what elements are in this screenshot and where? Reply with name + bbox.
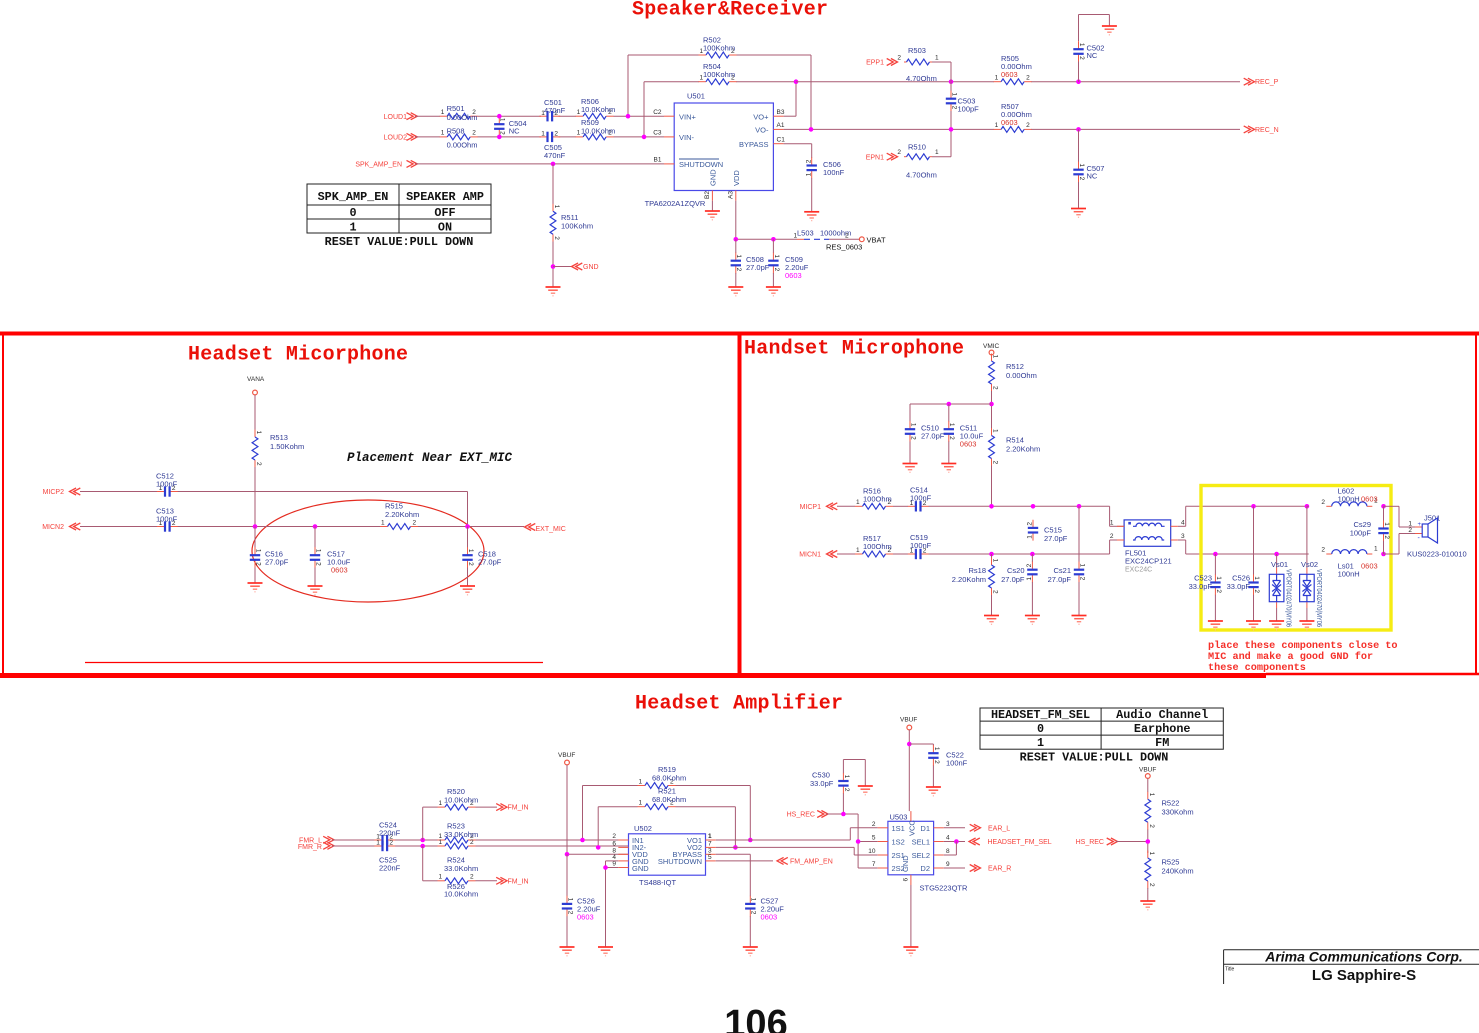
svg-text:Headset Amplifier: Headset Amplifier xyxy=(635,693,843,716)
svg-text:VBAT: VBAT xyxy=(867,235,886,244)
svg-text:0: 0 xyxy=(349,206,356,220)
wire net SPK_AMP_EN xyxy=(415,163,664,165)
ground C508 xyxy=(728,287,743,296)
svg-text:U501: U501 xyxy=(687,92,705,101)
node R502/VO- xyxy=(809,127,814,132)
capacitor C526b xyxy=(1227,506,1260,621)
svg-text:100pF: 100pF xyxy=(1350,529,1372,538)
wire HS_REC net xyxy=(826,814,878,868)
svg-text:1.50Kohm: 1.50Kohm xyxy=(270,442,304,451)
wire R504 feedback xyxy=(644,82,796,137)
svg-text:5: 5 xyxy=(708,854,712,861)
wire VMIC to R512 xyxy=(991,355,993,360)
node R502/VIN+ xyxy=(626,114,631,119)
svg-text:2: 2 xyxy=(845,233,849,240)
svg-text:FM: FM xyxy=(1155,736,1169,750)
capacitor C511 xyxy=(944,404,984,464)
port EAR_L xyxy=(944,824,1010,832)
inductor L503 xyxy=(794,229,863,252)
port FMR_R xyxy=(298,842,334,851)
wire BYPASS to C527 xyxy=(716,854,751,896)
port MICN1 xyxy=(799,551,837,559)
svg-text:RESET VALUE:PULL DOWN: RESET VALUE:PULL DOWN xyxy=(1020,751,1169,765)
resistor R520 xyxy=(438,787,479,810)
svg-text:100Ohm: 100Ohm xyxy=(863,542,892,551)
svg-text:3: 3 xyxy=(946,821,950,828)
svg-text:U502: U502 xyxy=(634,824,652,833)
node C518/MICN2 xyxy=(465,524,470,529)
svg-text:33.0pF: 33.0pF xyxy=(1227,582,1251,591)
svg-text:33.0Kohm: 33.0Kohm xyxy=(444,830,478,839)
svg-text:2: 2 xyxy=(612,833,616,840)
node R519 right xyxy=(748,838,753,843)
svg-text:VMIC: VMIC xyxy=(983,343,1000,350)
ground C523 xyxy=(1208,621,1223,630)
wire net MICP2 xyxy=(80,492,468,527)
resistor R503 xyxy=(897,46,939,83)
svg-text:68.0Kohm: 68.0Kohm xyxy=(652,795,686,804)
svg-text:RES_0603: RES_0603 xyxy=(826,243,862,252)
wire to GND port xyxy=(553,266,571,268)
svg-text:68.0Kohm: 68.0Kohm xyxy=(652,774,686,783)
svg-text:Cs20: Cs20 xyxy=(1007,566,1025,575)
svg-text:0603: 0603 xyxy=(960,440,977,449)
svg-text:0603: 0603 xyxy=(577,913,594,922)
svg-text:VCC: VCC xyxy=(908,820,917,836)
resistor R519 xyxy=(638,765,687,788)
svg-text:100Ohm: 100Ohm xyxy=(863,495,892,504)
svg-text:REC_N: REC_N xyxy=(1255,127,1279,134)
svg-text:33.0Kohm: 33.0Kohm xyxy=(444,864,478,873)
svg-text:100nF: 100nF xyxy=(946,759,968,768)
capacitor C521 xyxy=(1048,506,1086,615)
svg-text:1: 1 xyxy=(1110,520,1114,527)
filter FL501 xyxy=(1110,520,1185,574)
svg-text:Speaker&Receiver: Speaker&Receiver xyxy=(632,0,828,22)
svg-text:LOUD1: LOUD1 xyxy=(384,114,407,121)
ground V501 xyxy=(1269,621,1284,630)
svg-text:R514: R514 xyxy=(1006,436,1024,445)
node V501 xyxy=(1274,552,1279,557)
node C507 join xyxy=(1076,127,1081,132)
border right edge xyxy=(1475,334,1477,675)
svg-text:0603: 0603 xyxy=(761,913,778,922)
port FM_IN lower xyxy=(496,877,528,885)
svg-text:HS_REC: HS_REC xyxy=(787,812,815,819)
svg-text:EPN1: EPN1 xyxy=(866,154,884,161)
wire R502 feedback xyxy=(628,55,811,129)
svg-text:NC: NC xyxy=(509,127,520,136)
svg-text:R522: R522 xyxy=(1162,799,1180,808)
svg-text:3: 3 xyxy=(1181,533,1185,540)
node MICP1/C521 xyxy=(1077,504,1082,509)
port HEADSET_FM_SEL xyxy=(944,838,1052,855)
node MICP1/C515 xyxy=(1031,504,1036,509)
port FM_AMP_EN xyxy=(777,857,833,865)
resistor R501 xyxy=(440,104,478,122)
svg-text:SPK_AMP_EN: SPK_AMP_EN xyxy=(355,162,402,169)
resistor R508 xyxy=(440,127,478,150)
svg-text:FM_IN: FM_IN xyxy=(508,805,529,812)
svg-text:27.0pF: 27.0pF xyxy=(746,263,770,272)
capacitor C529 xyxy=(1350,506,1390,554)
power VBUF U503 xyxy=(900,717,917,730)
power VMIC xyxy=(983,343,1000,355)
svg-text:100nF: 100nF xyxy=(156,480,178,489)
wire net MICN2 xyxy=(80,526,524,528)
ground C520 xyxy=(1025,616,1040,625)
svg-text:2: 2 xyxy=(1408,527,1412,534)
node FM tap R xyxy=(420,844,425,849)
svg-text:R510: R510 xyxy=(908,143,926,152)
svg-text:D1: D1 xyxy=(920,824,930,833)
svg-text:EAR_L: EAR_L xyxy=(988,825,1010,832)
resistor R513 xyxy=(252,430,304,468)
resistor R510 xyxy=(897,143,939,180)
svg-text:4.70Ohm: 4.70Ohm xyxy=(906,171,937,180)
ground R518 xyxy=(984,616,999,625)
svg-text:HEADSET_FM_SEL: HEADSET_FM_SEL xyxy=(988,839,1052,846)
title block xyxy=(1224,949,1479,985)
wire net LOUD2 xyxy=(415,136,664,138)
svg-text:R513: R513 xyxy=(270,433,288,442)
port HS_REC left xyxy=(787,811,828,819)
border bottom of middle sections xyxy=(0,673,1266,678)
capacitor C516 xyxy=(250,527,289,584)
ground C510 xyxy=(903,464,918,473)
port GND xyxy=(572,263,599,271)
wire net FMR_R xyxy=(332,845,629,847)
svg-text:1: 1 xyxy=(708,833,712,840)
wire net REC_P xyxy=(796,81,1240,83)
ground C518 xyxy=(460,586,475,595)
svg-text:4: 4 xyxy=(1181,520,1185,527)
svg-text:LOUD2: LOUD2 xyxy=(384,135,407,142)
svg-text:0603: 0603 xyxy=(1001,70,1018,79)
node V502 xyxy=(1305,504,1310,509)
svg-text:SHUTDOWN: SHUTDOWN xyxy=(679,160,723,169)
capacitor C502 xyxy=(1073,15,1104,82)
node C509 xyxy=(771,237,776,242)
wire R511 top xyxy=(552,164,554,204)
node C511 top xyxy=(947,402,952,407)
svg-text:Cs21: Cs21 xyxy=(1053,566,1071,575)
inductor L602 xyxy=(1307,487,1378,507)
ground C506 xyxy=(804,212,819,221)
svg-text:VO+: VO+ xyxy=(753,113,769,122)
capacitor C518 xyxy=(462,527,501,587)
ground C509 xyxy=(766,287,781,296)
port EXT_MIC xyxy=(525,524,566,534)
svg-text:FM_IN: FM_IN xyxy=(508,878,529,885)
svg-text:0.00Ohm: 0.00Ohm xyxy=(447,113,478,122)
node C522 tap xyxy=(907,742,912,747)
capacitor C512 xyxy=(156,472,178,497)
svg-text:EXC24CP121: EXC24CP121 xyxy=(1125,557,1172,566)
svg-text:100nF: 100nF xyxy=(823,168,845,177)
wire net REC_N xyxy=(784,128,1240,130)
wire U502 gnd pins xyxy=(606,861,619,947)
resistor R525 xyxy=(1145,851,1194,889)
ground C517 xyxy=(308,586,323,595)
svg-text:2: 2 xyxy=(1321,499,1325,506)
wire FL501 out top xyxy=(1178,506,1309,526)
svg-text:VIN-: VIN- xyxy=(679,133,695,142)
ground C511 xyxy=(941,464,956,473)
svg-text:27.0pF: 27.0pF xyxy=(1044,534,1068,543)
capacitor C507 xyxy=(1073,129,1104,208)
svg-text:+: + xyxy=(1418,522,1422,528)
resistor R504 xyxy=(699,62,737,85)
resistor R509 xyxy=(576,118,616,140)
svg-text:9: 9 xyxy=(612,861,616,868)
svg-text:6: 6 xyxy=(903,878,910,882)
wire R510 to REC_N xyxy=(932,129,951,156)
svg-text:27.0pF: 27.0pF xyxy=(265,558,289,567)
svg-text:100Kohm: 100Kohm xyxy=(703,44,735,53)
svg-text:220nF: 220nF xyxy=(379,829,401,838)
capacitor C525 xyxy=(374,840,400,873)
svg-text:0603: 0603 xyxy=(1361,562,1378,571)
svg-text:MIC and make a good GND for: MIC and make a good GND for xyxy=(1208,651,1373,663)
ground U503 xyxy=(903,947,918,956)
svg-text:SPEAKER AMP: SPEAKER AMP xyxy=(406,190,484,204)
svg-text:Headset Micorphone: Headset Micorphone xyxy=(188,344,408,367)
node GND junction xyxy=(551,264,556,269)
ground C530 xyxy=(858,786,873,795)
resistor R512 xyxy=(989,354,1037,392)
node U502 gnd xyxy=(603,865,608,870)
svg-text:Arima Communications Corp.: Arima Communications Corp. xyxy=(1264,949,1463,965)
svg-text:VBUF: VBUF xyxy=(1139,767,1156,774)
capacitor C519 xyxy=(908,533,932,559)
node C502 join xyxy=(1076,79,1081,84)
svg-text:0: 0 xyxy=(1037,722,1044,736)
svg-text:C1: C1 xyxy=(777,136,786,143)
wire to J501 pin1 xyxy=(1384,506,1416,527)
wire R503 to REC_P xyxy=(932,62,951,82)
node R521 left xyxy=(596,845,601,850)
svg-text:place these components close t: place these components close to xyxy=(1208,640,1398,652)
svg-text:SEL1: SEL1 xyxy=(912,838,930,847)
svg-text:2: 2 xyxy=(1110,533,1114,540)
port EAR_R xyxy=(944,865,1012,873)
node FM tap L xyxy=(420,838,425,843)
capacitor C504 xyxy=(494,114,527,139)
svg-text:27.0pF: 27.0pF xyxy=(1048,575,1072,584)
svg-text:100nF: 100nF xyxy=(910,494,932,503)
svg-text:SHUTDOWN: SHUTDOWN xyxy=(658,857,702,866)
svg-text:STG5223QTR: STG5223QTR xyxy=(920,884,969,893)
resistor R521 xyxy=(638,787,687,810)
svg-text:470nF: 470nF xyxy=(544,151,566,160)
svg-text:0603: 0603 xyxy=(785,271,802,280)
svg-text:EPP1: EPP1 xyxy=(866,60,884,67)
resistor R506 xyxy=(576,97,616,119)
svg-text:MICP2: MICP2 xyxy=(43,489,65,496)
svg-text:1S1: 1S1 xyxy=(892,824,905,833)
wire BYPASS to C506 xyxy=(784,144,812,158)
svg-text:GND: GND xyxy=(901,855,910,872)
node HS_REC/C530 xyxy=(841,812,846,817)
node L602/C529 xyxy=(1381,504,1386,509)
svg-text:EXT_MIC: EXT_MIC xyxy=(536,526,566,533)
capacitor C527 xyxy=(745,896,784,947)
port EPP1 xyxy=(866,59,897,67)
border divider vertical xyxy=(738,334,742,676)
port FM_IN upper xyxy=(496,804,528,812)
svg-text:FMR_R: FMR_R xyxy=(298,844,322,851)
svg-text:0603: 0603 xyxy=(1361,494,1378,503)
svg-text:27.0pF: 27.0pF xyxy=(921,432,945,441)
svg-text:B1: B1 xyxy=(654,157,662,164)
svg-text:Handset Microphone: Handset Microphone xyxy=(744,338,964,361)
svg-text:330Kohm: 330Kohm xyxy=(1162,808,1194,817)
wire R525 to gnd xyxy=(1147,888,1149,901)
resistor R526 xyxy=(438,874,479,899)
capacitor C505 xyxy=(539,131,565,160)
svg-text:100nH: 100nH xyxy=(1338,570,1360,579)
svg-text:HEADSET_FM_SEL: HEADSET_FM_SEL xyxy=(991,708,1090,722)
wire VO2 to U503 xyxy=(716,847,878,855)
svg-text:GND: GND xyxy=(632,864,649,873)
border bottom right thin xyxy=(1266,673,1479,676)
ground V502 xyxy=(1299,621,1314,630)
amplifier U502 xyxy=(612,824,715,887)
svg-text:NC: NC xyxy=(1087,172,1098,181)
svg-text:9: 9 xyxy=(946,861,950,868)
wire R514 to MICP1 xyxy=(991,466,993,507)
wire R521 loop xyxy=(598,807,735,848)
port REC_P xyxy=(1244,78,1279,86)
wire R519 loop xyxy=(583,786,751,841)
resistor R505 xyxy=(994,54,1032,85)
svg-text:SPK_AMP_EN: SPK_AMP_EN xyxy=(318,190,389,204)
svg-text:10.0Kohm: 10.0Kohm xyxy=(581,105,615,114)
svg-text:1: 1 xyxy=(349,221,356,235)
svg-text:5: 5 xyxy=(872,835,876,842)
svg-text:RESET VALUE:PULL DOWN: RESET VALUE:PULL DOWN xyxy=(325,235,474,249)
port MICP2 xyxy=(43,488,81,496)
svg-text:VPORT0402470(MY06: VPORT0402470(MY06 xyxy=(1315,569,1324,627)
svg-text:Vs01: Vs01 xyxy=(1271,560,1288,569)
svg-text:VANA: VANA xyxy=(247,376,265,383)
svg-text:2: 2 xyxy=(1321,547,1325,554)
svg-text:0.00Ohm: 0.00Ohm xyxy=(1006,371,1037,380)
svg-text:2.20Kohm: 2.20Kohm xyxy=(1006,445,1040,454)
power VBUF divider xyxy=(1139,767,1156,779)
border left edge xyxy=(2,334,4,676)
svg-text:VIN+: VIN+ xyxy=(679,113,697,122)
svg-text:100Kohm: 100Kohm xyxy=(561,222,593,231)
svg-text:100nF: 100nF xyxy=(156,515,178,524)
port MICP1 xyxy=(800,503,838,511)
svg-text:Vs02: Vs02 xyxy=(1301,560,1318,569)
svg-text:1: 1 xyxy=(935,149,939,156)
svg-text:KUS0223-010010: KUS0223-010010 xyxy=(1407,550,1467,559)
svg-text:1: 1 xyxy=(1374,545,1378,552)
svg-text:C2: C2 xyxy=(653,109,662,116)
node VBUF/C526 xyxy=(565,852,570,857)
svg-text:NC: NC xyxy=(1087,51,1098,60)
wire to J501 pin2 xyxy=(1384,534,1416,555)
svg-text:27.0pF: 27.0pF xyxy=(478,558,502,567)
node R519 left xyxy=(580,838,585,843)
svg-text:Title: Title xyxy=(1225,967,1234,973)
ground U501 B2 xyxy=(705,201,720,220)
svg-text:7: 7 xyxy=(872,861,876,868)
placement ellipse xyxy=(252,500,484,602)
svg-text:VBUF: VBUF xyxy=(558,752,575,759)
svg-text:1: 1 xyxy=(794,233,798,240)
svg-text:VO-: VO- xyxy=(755,126,769,135)
svg-text:2.20Kohm: 2.20Kohm xyxy=(952,575,986,584)
capacitor C522 xyxy=(909,744,967,787)
resistor R523 xyxy=(438,822,479,843)
ground C521 xyxy=(1072,616,1087,625)
port FMR_L xyxy=(299,836,334,844)
svg-text:R501: R501 xyxy=(447,104,465,113)
border top of middle sections xyxy=(0,332,1479,336)
power VANA xyxy=(247,376,265,395)
wire SHUTDOWN to FM_AMP_EN xyxy=(716,860,773,862)
switch U503 xyxy=(868,811,968,892)
svg-text:100Kohm: 100Kohm xyxy=(703,70,735,79)
svg-text:4.70Ohm: 4.70Ohm xyxy=(906,74,937,83)
svg-text:GND: GND xyxy=(709,169,718,186)
port LOUD1 xyxy=(384,113,418,121)
wire VBUF to R522 xyxy=(1147,779,1149,793)
capacitor C515 xyxy=(1027,520,1068,543)
svg-text:Audio Channel: Audio Channel xyxy=(1116,708,1208,722)
svg-text:MICN1: MICN1 xyxy=(799,552,821,559)
capacitor C506 xyxy=(805,157,844,211)
capacitor C530 xyxy=(810,760,865,815)
svg-text:VPORT0402470(MY06: VPORT0402470(MY06 xyxy=(1285,569,1294,627)
capacitor C517 xyxy=(310,527,351,587)
port LOUD2 xyxy=(384,133,418,141)
node R503 join xyxy=(949,79,954,84)
svg-text:VDD: VDD xyxy=(732,170,741,186)
ground C502 xyxy=(1102,26,1117,35)
wire VO+ to node xyxy=(784,115,796,117)
ground under R511 xyxy=(546,287,561,296)
svg-text:A1: A1 xyxy=(777,122,785,129)
ground C507 xyxy=(1071,209,1086,218)
node HS_REC divider xyxy=(1146,839,1151,844)
node VMIC filter xyxy=(989,402,994,407)
capacitor C524 xyxy=(374,821,400,846)
svg-text:27.0pF: 27.0pF xyxy=(1001,575,1025,584)
capacitor C523 xyxy=(1189,554,1222,621)
node C523 xyxy=(1213,552,1218,557)
wire net MICN1 xyxy=(837,540,1124,554)
svg-text:LG Sapphire-S: LG Sapphire-S xyxy=(1312,967,1416,984)
svg-text:2.20Kohm: 2.20Kohm xyxy=(385,510,419,519)
svg-text:2: 2 xyxy=(897,55,901,62)
wire FL501 out bottom xyxy=(1178,540,1309,554)
svg-text:FM_AMP_EN: FM_AMP_EN xyxy=(790,858,833,865)
svg-text:these components: these components xyxy=(1208,662,1306,674)
wire net LOUD1 xyxy=(415,115,664,117)
svg-text:SEL2: SEL2 xyxy=(912,851,930,860)
svg-text:0603: 0603 xyxy=(331,566,348,575)
svg-text:33.0pF: 33.0pF xyxy=(1189,582,1213,591)
capacitor C510 xyxy=(905,404,945,464)
wire R511 bottom to gnd xyxy=(552,242,554,288)
svg-text:Earphone: Earphone xyxy=(1134,722,1191,736)
resistor R524 xyxy=(438,839,479,873)
